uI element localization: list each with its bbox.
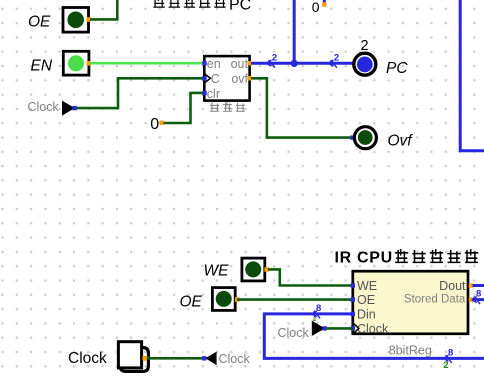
wire Dout (right edge): [473, 284, 484, 287]
wire from top into bus: [293, 0, 296, 63]
bus width marker 8 (right edge): [472, 297, 477, 303]
bus width marker 2 (right): [329, 60, 334, 66]
wire clock to tunnel: [147, 357, 204, 360]
wire tunnel to register Clock: [326, 327, 353, 330]
svg-text:8: 8: [476, 289, 481, 300]
svg-text:IR CPU: IR CPU: [335, 250, 393, 267]
svg-text:OE: OE: [357, 293, 375, 307]
svg-text:C: C: [211, 72, 220, 86]
counter label 计数器: [210, 102, 245, 112]
constant 0 (clr input): [150, 116, 164, 133]
wire counter ovf to Ovf pin: [251, 78, 352, 137]
output pin Ovf: [354, 127, 376, 149]
svg-text:Clock: Clock: [28, 100, 60, 114]
svg-text:2: 2: [272, 53, 277, 64]
register 8bitReg subcircuit box: [351, 271, 474, 336]
svg-text:8bitReg: 8bitReg: [389, 343, 432, 357]
svg-text:Clock: Clock: [219, 352, 251, 366]
wire 0 to counter clr: [164, 93, 205, 123]
input pin OE (register): [212, 288, 239, 311]
clock component: [118, 342, 148, 372]
svg-text:0: 0: [150, 116, 159, 133]
svg-text:0: 0: [312, 0, 320, 15]
svg-text:8: 8: [448, 347, 453, 358]
svg-text:8: 8: [316, 303, 321, 314]
svg-text:EN: EN: [31, 57, 53, 74]
svg-text:out: out: [231, 57, 249, 71]
svg-text:PC: PC: [229, 0, 251, 14]
svg-text:Stored Data: Stored Data: [404, 294, 466, 306]
svg-text:2: 2: [313, 316, 317, 323]
svg-text:Dout: Dout: [439, 279, 466, 293]
input pin EN: [63, 51, 91, 75]
wire OE to top edge: [90, 0, 117, 19]
wire WE to register: [268, 269, 353, 285]
counter 计数器 subcircuit box: [202, 56, 251, 101]
svg-text:Clock: Clock: [278, 326, 310, 340]
wire Clock to counter C: [77, 78, 205, 108]
svg-text:ovf: ovf: [231, 72, 248, 86]
svg-text:Ovf: Ovf: [388, 132, 414, 149]
svg-text:Din: Din: [357, 307, 376, 321]
title IR CPU指令寄存器: [335, 249, 479, 267]
svg-text:WE: WE: [357, 279, 377, 293]
bus width marker 2 (left): [267, 60, 272, 66]
output pin PC: [354, 38, 376, 75]
bus width marker 8 (Din): [312, 311, 317, 317]
junction: [291, 60, 298, 67]
tunnel Clock (register): [278, 321, 327, 340]
svg-text:OE: OE: [180, 293, 203, 310]
title 程序计数器PC (cut at top): [153, 0, 251, 14]
tunnel Clock (top): [28, 100, 77, 116]
svg-text:PC: PC: [386, 60, 408, 77]
wire EN to counter en: [90, 62, 204, 65]
tunnel Clock (bottom): [202, 352, 251, 366]
bus width marker 8 (bottom): [444, 355, 449, 361]
wire right vertical bus: [460, 0, 484, 151]
constant 0 (top, near bus): [312, 0, 327, 15]
svg-text:2: 2: [334, 53, 339, 64]
input pin OE: [63, 8, 91, 33]
bus counter out to PC: [251, 62, 353, 65]
svg-text:en: en: [207, 57, 221, 71]
wire stored data out (right edge): [473, 298, 484, 301]
svg-text:OE: OE: [28, 13, 51, 30]
svg-text:Clock: Clock: [357, 322, 389, 336]
input pin WE: [242, 258, 269, 281]
svg-text:clr: clr: [207, 87, 220, 101]
bus Din and bottom bus: [264, 314, 484, 359]
svg-text:Clock: Clock: [68, 350, 107, 367]
svg-text:2: 2: [443, 360, 448, 371]
wire OE to register: [237, 298, 353, 301]
svg-text:WE: WE: [204, 263, 230, 280]
